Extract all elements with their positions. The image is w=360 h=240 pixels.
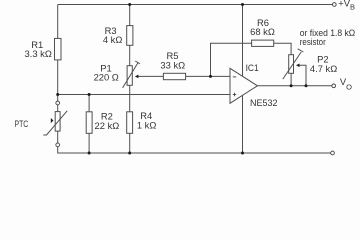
terminal +VB [332, 3, 336, 7]
terminal VO [332, 84, 336, 88]
thermistor PTC body [55, 112, 60, 132]
node top rail R3 junction [128, 3, 131, 6]
wire R2 bottom [88, 133, 90, 153]
wire mid rail (non-inverting node) [58, 94, 230, 96]
wire R1 bottom to mid rail [57, 60, 59, 101]
node R5 feedback junction [209, 75, 212, 78]
potentiometer P1 end tick [135, 61, 140, 64]
wire R3 to P1 [129, 45, 131, 65]
resistor R4 [127, 112, 133, 134]
terminal PTC top [56, 101, 60, 105]
svg-text:3.3 kΩ: 3.3 kΩ [25, 48, 52, 59]
svg-text:IC1: IC1 [246, 62, 259, 73]
svg-text:resistor: resistor [300, 36, 326, 47]
wire bottom terminal to bottom rail [57, 147, 59, 153]
wire R2 top [88, 95, 90, 112]
resistor R3 [127, 26, 133, 46]
svg-text:33 kΩ: 33 kΩ [160, 59, 185, 70]
wire P1 wiper to R5 [138, 75, 164, 77]
wire R5 to op-amp inverting input [186, 75, 230, 77]
node bottom rail IC1 supply junction [241, 152, 244, 155]
potentiometer P1 body [127, 66, 132, 86]
wire terminal to PTC [57, 105, 59, 112]
wire PTC to bottom terminal [57, 131, 59, 143]
svg-text:1 kΩ: 1 kΩ [137, 119, 157, 130]
wire left column top (R1 branch) [57, 5, 59, 39]
wire P2 wiper to output rail [299, 65, 306, 86]
wire bottom rail [58, 152, 331, 154]
resistor R6 [252, 40, 274, 46]
potentiometer P2 body [289, 55, 294, 74]
terminal PTC bottom [56, 143, 60, 147]
thermistor PTC diagonal [43, 111, 67, 135]
wire IC1 positive supply [242, 5, 244, 77]
op-amp IC1 non-inverting sign [233, 93, 236, 96]
svg-text:68 kΩ: 68 kΩ [250, 26, 275, 37]
wire P1 bottom to R4 [129, 85, 131, 112]
node P2 wiper junction [305, 84, 308, 87]
svg-text:220 Ω: 220 Ω [94, 72, 119, 83]
thermistor PTC wedge mark [51, 118, 54, 123]
terminal bottom right [331, 151, 335, 155]
wire feedback up from R5 node [211, 43, 252, 76]
resistor R2 [86, 112, 92, 134]
wire R6 to P2 top [274, 43, 291, 55]
potentiometer P2 end tick [298, 49, 304, 52]
wire R3 column from top rail [129, 5, 131, 26]
node P2 bottom junction [290, 84, 293, 87]
svg-text:4.7 kΩ: 4.7 kΩ [310, 63, 337, 74]
resistor R5 [163, 73, 185, 79]
op-amp IC1 inverting sign [233, 76, 236, 78]
node mid rail R2 junction [88, 93, 91, 96]
svg-text:NE532: NE532 [250, 97, 278, 108]
resistor R1 [55, 38, 62, 60]
svg-text:+VB: +VB [338, 0, 355, 12]
potentiometer P1 wiper arrowhead [135, 75, 139, 79]
svg-text:22 kΩ: 22 kΩ [95, 120, 120, 131]
op-amp IC1 triangle [230, 68, 257, 103]
svg-text:4 kΩ: 4 kΩ [103, 34, 123, 45]
wire R4 bottom to rail [129, 133, 131, 153]
wire output rail [257, 85, 331, 87]
potentiometer P1 diagonal [123, 63, 138, 88]
node bottom rail R4 junction [128, 152, 131, 155]
node top rail IC1 supply junction [241, 3, 244, 6]
wire top supply rail [58, 4, 333, 6]
node bottom rail R2 junction [88, 152, 91, 155]
node mid rail left junction [56, 93, 59, 96]
svg-text:PTC: PTC [15, 118, 29, 129]
potentiometer P2 wiper arrowhead [296, 64, 300, 68]
wire P2 bottom to output rail [290, 73, 292, 86]
svg-text:VO: VO [340, 76, 352, 92]
potentiometer P2 diagonal [283, 52, 301, 79]
wire IC1 negative supply [242, 95, 244, 153]
